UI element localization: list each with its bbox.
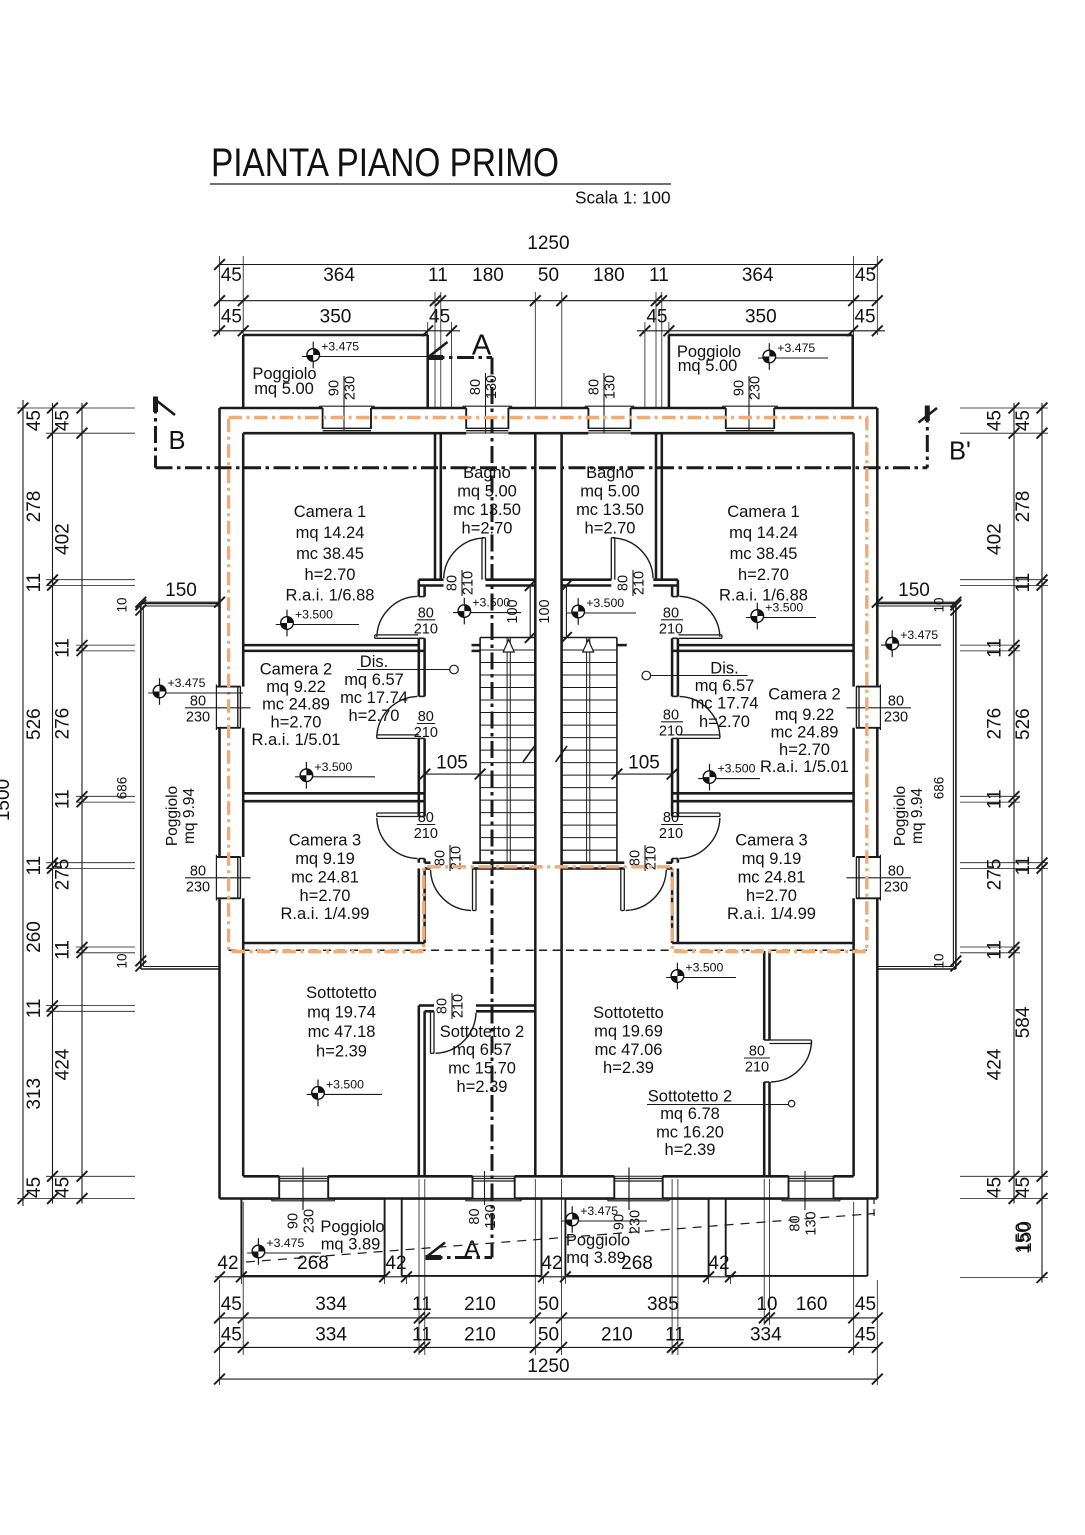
svg-text:80: 80 (616, 575, 632, 591)
door stair-bottom-left label 80/210 (449, 845, 451, 871)
svg-text:mq 6.57: mq 6.57 (452, 1041, 512, 1059)
svg-text:h=2.39: h=2.39 (316, 1042, 367, 1060)
svg-text:350: 350 (320, 307, 352, 328)
svg-text:686: 686 (115, 777, 130, 800)
dimension left poggiolo 45-350-45 (212, 330, 460, 332)
svg-text:45: 45 (221, 1294, 242, 1315)
svg-text:+3.475: +3.475 (266, 1236, 304, 1250)
svg-text:385: 385 (647, 1294, 679, 1315)
window south-centerright door 90/230 (613, 1176, 615, 1198)
svg-text:268: 268 (621, 1253, 653, 1274)
door camera1-right swing arc (679, 596, 720, 637)
wall south outer face (220, 1197, 280, 1200)
svg-text:mq 5.00: mq 5.00 (254, 380, 314, 398)
svg-text:+3.475: +3.475 (168, 676, 206, 690)
window east lower 80/230 (879, 855, 881, 901)
svg-text:210: 210 (414, 826, 438, 842)
door camera1-left label 80/210 (417, 619, 435, 621)
svg-text:B': B' (949, 438, 971, 466)
door camera3-right leaf (678, 812, 720, 814)
svg-text:230: 230 (343, 376, 359, 400)
svg-text:130: 130 (804, 1211, 820, 1235)
svg-text:230: 230 (186, 709, 210, 725)
left chain extension lines (17, 407, 135, 409)
svg-text:210: 210 (414, 725, 438, 741)
svg-text:mq 9.22: mq 9.22 (266, 678, 326, 696)
stair left unit (480, 637, 535, 639)
svg-text:h=2.70: h=2.70 (305, 566, 356, 584)
partition right upper (camera1 door wall) (671, 586, 674, 597)
svg-text:90: 90 (327, 380, 343, 396)
svg-text:210: 210 (461, 571, 477, 595)
label 90-230 vertical leaders (302, 1168, 304, 1211)
svg-text:h=2.39: h=2.39 (457, 1078, 508, 1096)
door stair-bottom-right leaf (623, 869, 625, 911)
wall camera3-right west lower (671, 869, 674, 944)
balcony east (poggiolo mq 9.94) outline (877, 603, 956, 605)
svg-text:278: 278 (24, 491, 45, 523)
svg-text:h=2.70: h=2.70 (349, 707, 400, 725)
svg-text:mc 24.81: mc 24.81 (291, 868, 359, 886)
wall camera2-right south (672, 792, 854, 795)
svg-text:80: 80 (888, 693, 904, 709)
window south-left door 90/230 (278, 1176, 280, 1198)
svg-text:mq 3.89: mq 3.89 (321, 1236, 381, 1254)
svg-text:11: 11 (1013, 856, 1034, 876)
svg-text:276: 276 (985, 708, 1006, 740)
wall west outer face (218, 408, 221, 687)
section A top elbow (428, 356, 493, 359)
bottom dimension row 45-334-11-210-50-385-10-160-45 (220, 1317, 878, 1319)
svg-text:h=2.39: h=2.39 (665, 1141, 716, 1159)
svg-text:10: 10 (115, 953, 130, 968)
svg-text:mc 38.45: mc 38.45 (296, 545, 364, 563)
svg-text:Bagno: Bagno (463, 464, 511, 482)
dimension 100 left stairhead (529, 586, 531, 638)
svg-text:45: 45 (855, 1294, 876, 1315)
svg-text:11: 11 (24, 856, 45, 876)
svg-text:90: 90 (286, 1213, 302, 1229)
svg-text:80: 80 (788, 1215, 804, 1231)
svg-text:Bagno: Bagno (586, 464, 634, 482)
svg-text:A: A (464, 1236, 480, 1263)
balcony south box2 (terrace center) (402, 1198, 542, 1200)
partition left mid (camera2 door wall) (418, 645, 421, 696)
right chain 45-402-11-276-11-275-11-424-45 (1013, 403, 1015, 1204)
section B left elbow (154, 397, 157, 468)
svg-text:313: 313 (24, 1078, 45, 1110)
elevation +3.475 balcony east (891, 630, 893, 657)
svg-text:105: 105 (436, 753, 468, 774)
svg-text:mq 9.19: mq 9.19 (742, 850, 802, 868)
wall center party left line (534, 433, 537, 1176)
door camera2-left swing arc (377, 696, 418, 737)
svg-text:Poggiolo: Poggiolo (164, 786, 181, 846)
svg-text:42: 42 (541, 1253, 562, 1274)
svg-text:mq 3.89: mq 3.89 (566, 1249, 626, 1267)
window west lower 80/230 (215, 855, 217, 901)
window bagno-right 80/130 (585, 405, 634, 407)
svg-text:424: 424 (985, 1048, 1006, 1080)
svg-text:1250: 1250 (527, 1356, 569, 1377)
svg-text:Sottotetto: Sottotetto (593, 1004, 664, 1022)
dimension 105 left dis (425, 773, 480, 775)
bottom dimension row 45-334-11-210-50-210-11-334-45 (220, 1346, 878, 1348)
svg-text:B: B (168, 427, 185, 455)
svg-text:45: 45 (53, 410, 74, 431)
wall camera3-left south (243, 942, 424, 945)
svg-text:150: 150 (898, 580, 930, 601)
svg-text:11: 11 (985, 789, 1006, 809)
door camera2-right label 80/210 (661, 721, 683, 723)
svg-text:PIANTA PIANO PRIMO: PIANTA PIANO PRIMO (211, 141, 559, 185)
partition left lower (camera3 door wall) (418, 793, 421, 816)
door camera3-left label 80/210 (417, 824, 435, 826)
door bagno-left swing arc (444, 538, 484, 578)
svg-text:105: 105 (628, 753, 660, 774)
svg-text:11: 11 (53, 638, 74, 658)
elevation +3.500 sottotetto-right (676, 963, 678, 990)
label 90/230 poggiolo-left (343, 376, 345, 431)
dimension 150 west balcony (141, 601, 220, 603)
wall camera1-right south (678, 644, 854, 647)
door camera2-left leaf (377, 734, 419, 736)
svg-text:10: 10 (756, 1294, 777, 1315)
door sottotetto2-right label 80/210 (744, 1057, 770, 1059)
svg-text:45: 45 (221, 307, 242, 328)
svg-text:80: 80 (888, 863, 904, 879)
svg-text:11: 11 (665, 1325, 685, 1346)
window poggiolo-left door 90/230 (319, 405, 374, 407)
elevation +3.475 poggiolo top-right (768, 343, 770, 370)
svg-text:R.a.i. 1/4.99: R.a.i. 1/4.99 (727, 905, 816, 923)
svg-text:11: 11 (412, 1294, 432, 1315)
elevation +3.500 camera2-left (305, 762, 307, 789)
elevation +3.500 landing-left (463, 598, 465, 625)
svg-text:90: 90 (732, 380, 748, 396)
svg-text:150: 150 (165, 580, 197, 601)
svg-text:50: 50 (538, 1294, 559, 1315)
svg-text:230: 230 (186, 879, 210, 895)
window south-right door 80/130 (788, 1176, 790, 1198)
label 80/130 bagno-right (603, 373, 605, 433)
svg-text:45: 45 (855, 1325, 876, 1346)
svg-text:334: 334 (750, 1325, 782, 1346)
title underline (210, 183, 671, 185)
top extension lines (434, 292, 436, 408)
svg-text:210: 210 (659, 723, 683, 739)
left chain 45-402-11-276-11-275-11-424-45 (81, 403, 83, 1204)
svg-text:45: 45 (24, 410, 45, 431)
svg-text:h=2.70: h=2.70 (738, 566, 789, 584)
svg-text:h=2.39: h=2.39 (603, 1059, 654, 1077)
door sottotetto2-left label 80/210 (451, 993, 453, 1019)
door camera3-right label 80/210 (661, 824, 683, 826)
door stair-bottom-left swing arc (431, 870, 472, 911)
wall west inner face (242, 433, 245, 686)
svg-text:278: 278 (1013, 491, 1034, 523)
svg-text:R.a.i. 1/5.01: R.a.i. 1/5.01 (760, 758, 849, 776)
svg-text:R.a.i. 1/6.88: R.a.i. 1/6.88 (719, 586, 808, 604)
svg-text:210: 210 (659, 826, 683, 842)
label 80/230 east upper (846, 707, 911, 709)
window poggiolo-right door 90/230 (723, 405, 778, 407)
svg-text:50: 50 (538, 265, 559, 286)
window west upper 80/230 (215, 684, 217, 730)
svg-text:mq 5.00: mq 5.00 (457, 482, 517, 500)
svg-text:11: 11 (985, 638, 1006, 658)
svg-text:mq 19.74: mq 19.74 (307, 1003, 376, 1021)
svg-text:80: 80 (445, 575, 461, 591)
svg-text:10: 10 (932, 953, 947, 968)
window south-centerleft door 80/130 (472, 1176, 474, 1198)
svg-text:210: 210 (601, 1325, 633, 1346)
door camera3-left swing arc (377, 818, 418, 859)
svg-text:11: 11 (649, 265, 669, 286)
poggiolo top-left outline (243, 334, 428, 337)
window east upper 80/230 (879, 684, 881, 730)
poggiolo top-right outline (669, 334, 853, 337)
svg-text:R.a.i. 1/6.88: R.a.i. 1/6.88 (286, 586, 375, 604)
elevation +3.475 balcony west (159, 678, 161, 705)
label 80/230 east lower (846, 877, 911, 879)
svg-text:1500: 1500 (0, 779, 14, 821)
svg-text:11: 11 (53, 940, 74, 960)
door stair-bottom-left leaf (472, 869, 474, 911)
door camera3-left leaf (377, 812, 419, 814)
elevation +3.500 camera1-right (756, 603, 758, 630)
svg-text:80: 80 (435, 998, 451, 1014)
label 80/230 west upper (185, 707, 251, 709)
svg-text:Camera 3: Camera 3 (289, 831, 361, 849)
svg-text:230: 230 (302, 1209, 318, 1233)
svg-text:Sottotetto 2: Sottotetto 2 (648, 1087, 732, 1105)
svg-text:80: 80 (587, 379, 603, 395)
svg-text:180: 180 (472, 265, 504, 286)
svg-text:h=2.70: h=2.70 (746, 887, 797, 905)
svg-text:+3.500: +3.500 (314, 760, 352, 774)
svg-text:350: 350 (745, 307, 777, 328)
elevation +3.475 balcony south-right (571, 1206, 573, 1233)
svg-text:mc 16.20: mc 16.20 (656, 1123, 724, 1141)
svg-text:mc 13.50: mc 13.50 (576, 501, 644, 519)
svg-text:mc 24.89: mc 24.89 (771, 723, 839, 741)
svg-text:Camera 1: Camera 1 (294, 503, 366, 521)
svg-text:Sottotetto: Sottotetto (306, 984, 377, 1002)
dimension 150 east balcony (877, 601, 956, 603)
balcony west (poggiolo mq 9.94) outline (141, 603, 220, 605)
balcony south box4 (terrace right) (726, 1198, 868, 1200)
svg-text:mq 9.19: mq 9.19 (295, 850, 355, 868)
door camera1-right label 80/210 (661, 619, 683, 621)
label 80/130 bagno-left (485, 373, 487, 433)
right chain 45-278-11-526-11-584-45-150 (1041, 403, 1043, 1283)
svg-text:45: 45 (854, 307, 875, 328)
door bagno-left leaf (481, 538, 483, 580)
svg-text:mq 14.24: mq 14.24 (296, 524, 365, 542)
elevation +3.500 camera2-right (709, 764, 711, 791)
door camera1-left leaf (375, 634, 419, 636)
svg-text:230: 230 (748, 376, 764, 400)
svg-text:Poggiolo: Poggiolo (566, 1232, 630, 1250)
svg-text:42: 42 (708, 1253, 729, 1274)
svg-text:Camera 3: Camera 3 (735, 831, 807, 849)
wall stair-bottom right (562, 861, 625, 864)
svg-text:45: 45 (985, 1177, 1006, 1198)
svg-text:+3.500: +3.500 (586, 596, 624, 610)
dimension 42-268-42 box3 (539, 1276, 734, 1278)
svg-text:mc 17.74: mc 17.74 (340, 689, 408, 707)
door bagno-right leaf (610, 538, 612, 580)
svg-text:275: 275 (985, 859, 1006, 891)
svg-text:268: 268 (297, 1253, 329, 1274)
svg-text:80: 80 (467, 1208, 483, 1224)
partition left upper (camera1 door wall) (418, 580, 421, 597)
svg-text:42: 42 (217, 1253, 238, 1274)
dimension 100 right stairhead (565, 586, 567, 638)
door sottotetto2-left leaf (430, 1011, 432, 1053)
svg-text:Dis.: Dis. (710, 659, 738, 677)
svg-text:80: 80 (663, 605, 679, 621)
svg-text:mc 15.70: mc 15.70 (448, 1059, 516, 1077)
svg-text:+3.500: +3.500 (718, 762, 756, 776)
svg-text:Dis.: Dis. (360, 653, 388, 671)
svg-text:80: 80 (663, 810, 679, 826)
svg-text:A: A (472, 330, 492, 362)
svg-text:mq 5.00: mq 5.00 (678, 357, 738, 375)
svg-text:45: 45 (24, 1177, 45, 1198)
svg-text:+3.500: +3.500 (685, 961, 723, 975)
wall north outer face (220, 407, 323, 410)
svg-text:mq 19.69: mq 19.69 (594, 1022, 663, 1040)
svg-text:42: 42 (385, 1253, 406, 1274)
svg-text:210: 210 (464, 1325, 496, 1346)
svg-text:80: 80 (418, 810, 434, 826)
svg-text:mc 13.50: mc 13.50 (453, 501, 521, 519)
svg-text:mc 24.89: mc 24.89 (262, 696, 330, 714)
svg-text:424: 424 (53, 1048, 74, 1080)
svg-text:Sottotetto 2: Sottotetto 2 (440, 1023, 524, 1041)
label 90/230 south-left (302, 1168, 304, 1211)
svg-text:45: 45 (1013, 410, 1034, 431)
svg-text:mc 47.06: mc 47.06 (595, 1041, 663, 1059)
wall bagno-right east side (655, 433, 658, 580)
label 80/230 west lower (185, 877, 251, 879)
svg-text:mq 9.94: mq 9.94 (181, 788, 198, 844)
svg-text:364: 364 (323, 265, 355, 286)
svg-text:80: 80 (749, 1044, 765, 1060)
door camera2-left label 80/210 (417, 723, 435, 725)
svg-text:230: 230 (628, 1210, 644, 1234)
elevation +3.475 balcony south-left (257, 1238, 259, 1265)
svg-text:334: 334 (315, 1294, 347, 1315)
svg-text:mc 38.45: mc 38.45 (730, 545, 798, 563)
stair break marks (523, 746, 535, 762)
wall camera1-left south (243, 644, 419, 647)
thermal envelope orange dashed (229, 418, 867, 952)
door camera2-right leaf (678, 734, 720, 736)
svg-text:210: 210 (451, 994, 467, 1018)
svg-text:80: 80 (418, 709, 434, 725)
svg-text:402: 402 (985, 523, 1006, 555)
svg-text:mc 47.18: mc 47.18 (308, 1023, 376, 1041)
svg-text:mq 9.94: mq 9.94 (909, 788, 926, 844)
svg-text:+3.475: +3.475 (777, 341, 815, 355)
svg-text:45: 45 (1013, 1177, 1034, 1198)
door sottotetto2-right leaf (770, 1039, 812, 1041)
svg-text:526: 526 (1013, 708, 1034, 740)
label 90/230 south-centerright (628, 1168, 630, 1211)
svg-text:11: 11 (412, 1325, 432, 1346)
svg-text:100: 100 (537, 599, 553, 623)
svg-text:210: 210 (632, 571, 648, 595)
svg-text:10: 10 (115, 597, 130, 612)
svg-text:+3.500: +3.500 (326, 1077, 364, 1091)
svg-text:210: 210 (659, 621, 683, 637)
bottom dimension total 1250 (220, 1378, 878, 1380)
elevation +3.500 camera1-left (286, 610, 288, 637)
wall sottotetto2-right (763, 951, 766, 1040)
boundary dashed line (246, 1214, 875, 1263)
svg-text:150: 150 (1015, 1221, 1036, 1253)
svg-text:+3.475: +3.475 (580, 1204, 618, 1218)
door bagno-right swing arc (613, 538, 653, 578)
section line B-B horizontal (156, 466, 928, 469)
wall bagno-left south (419, 578, 444, 581)
dimension 105 right dis (617, 773, 672, 775)
svg-text:11: 11 (985, 940, 1006, 960)
svg-text:h=2.70: h=2.70 (699, 713, 750, 731)
svg-text:11: 11 (1013, 573, 1034, 593)
svg-text:mq 6.57: mq 6.57 (695, 677, 755, 695)
label 90/230 poggiolo-right (748, 376, 750, 431)
svg-text:h=2.70: h=2.70 (271, 713, 322, 731)
section B' right elbow (926, 406, 929, 468)
elevation +3.475 poggiolo top-left (312, 342, 314, 369)
svg-text:276: 276 (53, 708, 74, 740)
dimension total width 1250 (220, 264, 878, 266)
svg-text:45: 45 (53, 1177, 74, 1198)
svg-text:230: 230 (884, 709, 908, 725)
door stair-bottom-right label 80/210 (644, 845, 646, 871)
door camera3-right swing arc (679, 818, 720, 859)
balcony south box3 (poggiolo mq 3.89 right) (565, 1198, 708, 1200)
elevation +3.500 landing-right (577, 598, 579, 625)
dimension 42-268-42 box1 (215, 1276, 410, 1278)
svg-text:80: 80 (418, 605, 434, 621)
svg-text:R.a.i. 1/4.99: R.a.i. 1/4.99 (281, 905, 370, 923)
wall camera3-right south (672, 942, 854, 945)
door stair-bottom-right swing arc (626, 870, 667, 911)
door camera1-right leaf (679, 634, 722, 636)
bottom extension lines (219, 1280, 221, 1385)
svg-text:Camera 2: Camera 2 (768, 685, 840, 703)
svg-text:45: 45 (221, 265, 242, 286)
svg-text:45: 45 (985, 410, 1006, 431)
svg-text:11: 11 (24, 573, 45, 593)
svg-text:130: 130 (603, 375, 619, 399)
svg-text:h=2.70: h=2.70 (462, 519, 513, 537)
svg-text:80: 80 (433, 850, 449, 866)
wall bagno-left west side (434, 433, 437, 580)
partition right mid (camera2 door wall) (671, 651, 674, 697)
label 80/130 south-centerleft (484, 1171, 486, 1205)
label 80/130 south-right (804, 1171, 806, 1210)
svg-text:11: 11 (428, 265, 448, 286)
wall center party right line (560, 433, 563, 1176)
wall north inner face (243, 432, 466, 435)
svg-text:160: 160 (796, 1294, 828, 1315)
